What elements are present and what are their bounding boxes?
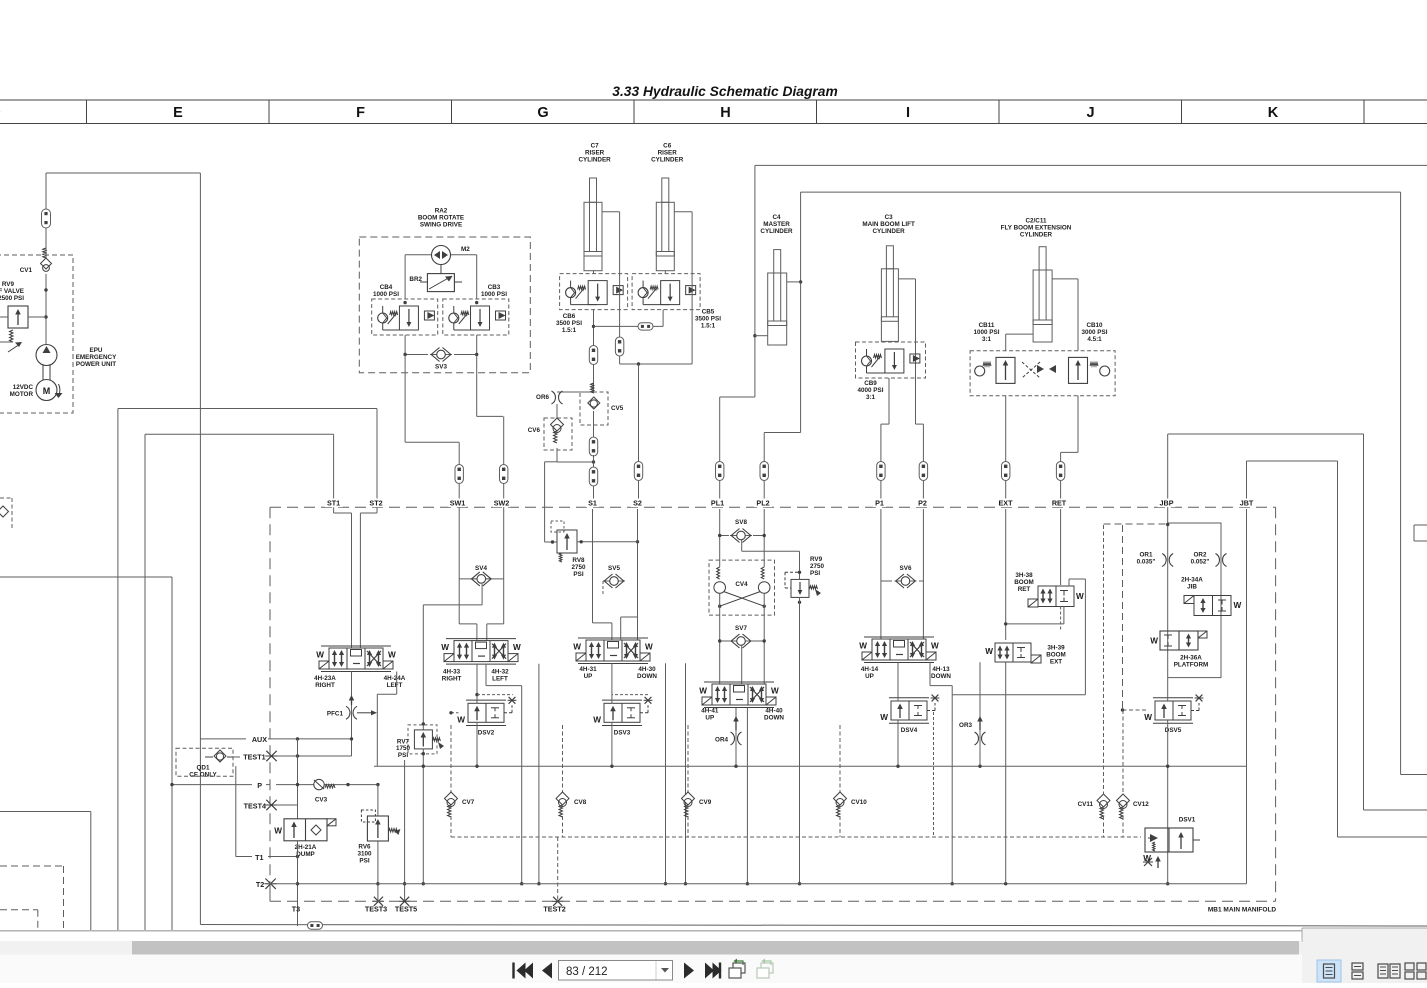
svg-text:PSI: PSI [810, 570, 820, 577]
svg-text:SV8: SV8 [735, 519, 747, 526]
svg-text:W: W [457, 715, 465, 724]
svg-text:JBP: JBP [1160, 499, 1174, 508]
svg-text:W: W [859, 642, 867, 651]
svg-text:JIB: JIB [1187, 584, 1197, 591]
svg-text:SV7: SV7 [735, 625, 747, 632]
svg-text:W: W [645, 643, 653, 652]
svg-text:DSV3: DSV3 [614, 729, 631, 736]
svg-text:MB1 MAIN MANIFOLD: MB1 MAIN MANIFOLD [1208, 907, 1277, 914]
svg-text:CB3: CB3 [488, 284, 501, 291]
svg-text:4H-41: 4H-41 [701, 708, 719, 715]
svg-text:CV12: CV12 [1133, 801, 1149, 808]
svg-text:UP: UP [865, 673, 874, 680]
svg-text:T3: T3 [292, 904, 300, 913]
svg-text:EXT: EXT [999, 499, 1014, 508]
svg-text:4H-24A: 4H-24A [384, 675, 406, 682]
svg-text:TEST4: TEST4 [244, 801, 266, 810]
svg-text:W: W [771, 687, 779, 696]
svg-text:UP: UP [584, 673, 593, 680]
svg-text:W: W [593, 715, 601, 724]
svg-text:I: I [906, 105, 910, 121]
svg-text:W: W [1144, 713, 1152, 722]
svg-text:83 / 212: 83 / 212 [566, 966, 608, 978]
svg-text:DSV1: DSV1 [1179, 817, 1196, 824]
svg-text:PSI: PSI [398, 752, 408, 759]
svg-text:DSV2: DSV2 [478, 729, 495, 736]
svg-text:RELIEF VALVE: RELIEF VALVE [0, 288, 24, 295]
svg-text:3.33 Hydraulic Schematic Diag: 3.33 Hydraulic Schematic Diagram [612, 84, 837, 99]
svg-text:P2: P2 [918, 499, 927, 508]
svg-text:PLATFORM: PLATFORM [1174, 662, 1209, 669]
svg-text:W: W [1150, 637, 1158, 646]
svg-text:S2: S2 [633, 499, 642, 508]
svg-text:4H-33: 4H-33 [443, 669, 461, 676]
svg-text:TEST1: TEST1 [243, 752, 265, 761]
svg-text:CV4: CV4 [735, 581, 748, 588]
svg-text:LEFT: LEFT [492, 676, 508, 683]
svg-text:OR3: OR3 [959, 722, 972, 729]
svg-text:DOWN: DOWN [637, 673, 657, 680]
svg-text:PL1: PL1 [711, 499, 724, 508]
svg-text:OR4: OR4 [715, 737, 728, 744]
svg-text:SW2: SW2 [494, 499, 510, 508]
svg-text:W: W [388, 651, 396, 660]
svg-text:TEST3: TEST3 [365, 904, 387, 913]
svg-text:PL2: PL2 [756, 499, 769, 508]
svg-text:SV6: SV6 [900, 565, 912, 572]
svg-text:CV5: CV5 [611, 405, 624, 412]
svg-text:3:1: 3:1 [982, 336, 992, 343]
svg-text:D: D [0, 105, 1, 121]
svg-text:S1: S1 [588, 499, 597, 508]
svg-text:F: F [356, 105, 365, 121]
svg-text:4H-30: 4H-30 [638, 666, 656, 673]
svg-text:TEST5: TEST5 [395, 904, 417, 913]
svg-text:PSI: PSI [573, 571, 583, 578]
svg-text:1.5:1: 1.5:1 [701, 322, 716, 329]
svg-text:4.5:1: 4.5:1 [1087, 336, 1102, 343]
svg-text:W: W [985, 647, 993, 656]
svg-text:CYLINDER: CYLINDER [579, 156, 612, 163]
svg-text:2H-36A: 2H-36A [1180, 655, 1202, 662]
svg-text:POWER UNIT: POWER UNIT [76, 361, 116, 368]
svg-text:SWING DRIVE: SWING DRIVE [420, 221, 462, 228]
svg-text:DSV4: DSV4 [901, 727, 918, 734]
svg-text:TEST2: TEST2 [543, 904, 565, 913]
svg-text:0.052": 0.052" [1191, 559, 1210, 566]
svg-text:4H-14: 4H-14 [861, 666, 879, 673]
svg-text:OR6: OR6 [536, 394, 549, 401]
svg-text:SW1: SW1 [450, 499, 466, 508]
svg-text:SV3: SV3 [435, 364, 447, 371]
svg-text:RV9: RV9 [2, 281, 15, 288]
svg-text:E: E [173, 105, 183, 121]
svg-text:CV3: CV3 [315, 797, 328, 804]
svg-text:4H-31: 4H-31 [579, 666, 597, 673]
svg-text:W: W [1234, 601, 1242, 610]
svg-text:H: H [720, 105, 730, 121]
svg-text:P: P [257, 781, 262, 790]
svg-text:CV1: CV1 [20, 267, 33, 274]
svg-text:W: W [441, 643, 449, 652]
svg-text:CYLINDER: CYLINDER [1020, 231, 1053, 238]
svg-text:SV5: SV5 [608, 565, 620, 572]
svg-text:CV7: CV7 [462, 799, 475, 806]
svg-text:CV10: CV10 [851, 799, 867, 806]
svg-text:UP: UP [705, 715, 714, 722]
svg-text:K: K [1268, 105, 1279, 121]
svg-text:PFC1: PFC1 [327, 711, 344, 718]
svg-text:P1: P1 [875, 499, 884, 508]
svg-text:W: W [513, 643, 521, 652]
svg-text:DOWN: DOWN [931, 673, 951, 680]
svg-text:RIGHT: RIGHT [442, 676, 462, 683]
svg-text:ST2: ST2 [369, 499, 382, 508]
svg-text:SV4: SV4 [475, 565, 487, 572]
svg-text:CE ONLY: CE ONLY [189, 771, 217, 778]
svg-text:OR2: OR2 [1194, 552, 1207, 559]
svg-text:2750: 2750 [810, 563, 825, 570]
svg-text:W: W [931, 642, 939, 651]
svg-text:CV11: CV11 [1078, 801, 1094, 808]
svg-text:4H-23A: 4H-23A [314, 675, 336, 682]
svg-text:W: W [316, 651, 324, 660]
svg-text:0.035": 0.035" [1137, 559, 1156, 566]
svg-text:DOWN: DOWN [764, 715, 784, 722]
svg-text:MOTOR: MOTOR [10, 391, 34, 398]
svg-text:W: W [573, 643, 581, 652]
svg-text:W: W [880, 713, 888, 722]
svg-text:AUX: AUX [252, 735, 267, 744]
svg-text:G: G [537, 105, 548, 121]
svg-text:1.5:1: 1.5:1 [562, 327, 577, 334]
svg-text:CYLINDER: CYLINDER [873, 228, 906, 235]
svg-text:RET: RET [1018, 586, 1031, 593]
svg-text:3:1: 3:1 [866, 394, 876, 401]
svg-text:RET: RET [1052, 499, 1067, 508]
svg-text:2H-34A: 2H-34A [1181, 577, 1203, 584]
svg-text:M: M [43, 386, 51, 396]
svg-text:2500 PSI: 2500 PSI [0, 295, 24, 302]
svg-text:W: W [1076, 592, 1084, 601]
svg-text:4H-40: 4H-40 [765, 708, 783, 715]
svg-text:W: W [274, 827, 282, 836]
svg-text:4H-32: 4H-32 [491, 669, 509, 676]
svg-text:1000 PSI: 1000 PSI [373, 291, 399, 298]
svg-text:PSI: PSI [359, 857, 369, 864]
svg-text:12VDC: 12VDC [13, 384, 34, 391]
svg-text:T2: T2 [256, 880, 264, 889]
svg-text:CYLINDER: CYLINDER [651, 156, 684, 163]
svg-text:ST1: ST1 [327, 499, 340, 508]
svg-text:T1: T1 [255, 853, 263, 862]
svg-text:CV9: CV9 [699, 799, 712, 806]
svg-text:CB4: CB4 [380, 284, 393, 291]
svg-text:M2: M2 [461, 246, 470, 253]
svg-text:EXT: EXT [1050, 658, 1062, 665]
svg-text:W: W [699, 687, 707, 696]
svg-text:RV9: RV9 [810, 556, 823, 563]
svg-text:J: J [1086, 105, 1094, 121]
svg-text:4H-13: 4H-13 [932, 666, 950, 673]
svg-text:LEFT: LEFT [387, 682, 403, 689]
svg-text:CYLINDER: CYLINDER [760, 228, 793, 235]
svg-text:JBT: JBT [1240, 499, 1254, 508]
svg-text:CV6: CV6 [528, 427, 541, 434]
svg-text:1000 PSI: 1000 PSI [481, 291, 507, 298]
svg-text:RIGHT: RIGHT [315, 682, 335, 689]
svg-text:OR1: OR1 [1140, 552, 1153, 559]
svg-text:CV8: CV8 [574, 799, 587, 806]
